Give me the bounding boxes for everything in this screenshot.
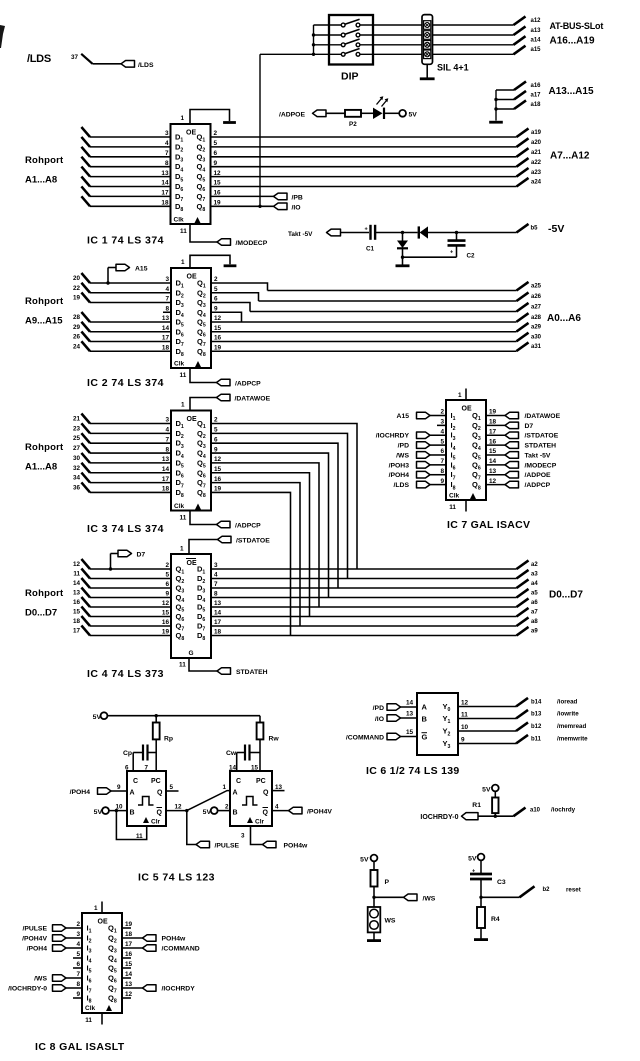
svg-text:5: 5: [214, 140, 218, 147]
svg-text:8: 8: [440, 468, 444, 475]
svg-text:+: +: [450, 250, 453, 256]
pin1 OE of IC2 to ground: [190, 255, 230, 268]
svg-text:A: A: [422, 703, 428, 712]
svg-text:15: 15: [73, 609, 81, 616]
svg-text:15: 15: [214, 180, 222, 187]
svg-text:3: 3: [165, 276, 169, 283]
svg-text:2: 2: [214, 276, 218, 283]
svg-text:7: 7: [76, 971, 80, 978]
wires IC2 Q outputs staircase to bus a25..a31: [211, 283, 268, 291]
svg-text:4: 4: [275, 804, 279, 811]
svg-text:OE: OE: [187, 416, 197, 423]
resistor R1: [494, 791, 496, 797]
junction /IO with DIP vertical: [258, 205, 261, 208]
svg-text:4: 4: [165, 427, 169, 434]
svg-text:/MODECP: /MODECP: [525, 462, 557, 469]
svg-text:/LDS: /LDS: [27, 53, 51, 65]
svg-text:WS: WS: [385, 918, 396, 925]
svg-text:C: C: [236, 778, 241, 785]
svg-text:A13...A15: A13...A15: [549, 86, 594, 97]
wire P2 to LED: [361, 112, 373, 114]
svg-text:17: 17: [489, 428, 497, 435]
svg-text:/iochrdy: /iochrdy: [551, 807, 576, 814]
svg-text:11: 11: [136, 833, 143, 840]
scan artifact top-left edge: [0, 25, 5, 48]
power 5V at P: [371, 855, 378, 862]
ground WS: [367, 939, 381, 942]
pin1 OE of IC3 to /DATAWOE: [190, 398, 217, 411]
wire Q2bar (pin4) to /POH4V: [272, 810, 289, 812]
svg-text:/PD: /PD: [373, 705, 384, 712]
svg-text:6: 6: [76, 961, 80, 968]
svg-text:b13: b13: [531, 712, 542, 718]
LED D3: [373, 108, 383, 119]
svg-text:17: 17: [161, 190, 169, 197]
svg-text:Q: Q: [263, 790, 269, 797]
wires A13..A15 grounded group: [495, 90, 497, 121]
svg-text:4: 4: [165, 286, 169, 293]
svg-text:16: 16: [125, 951, 133, 958]
svg-text:17: 17: [73, 628, 81, 635]
svg-text:a28: a28: [531, 315, 542, 321]
svg-text:a24: a24: [531, 180, 542, 186]
svg-text:/IOCHRDY: /IOCHRDY: [376, 433, 410, 440]
op IC4 74 LS 373: [171, 554, 211, 658]
svg-text:7: 7: [165, 150, 169, 157]
bus entries a25..a31: [517, 282, 529, 291]
power 5V at B2 (pin2): [211, 807, 218, 814]
bus entry a10 /iochrdy: [514, 808, 526, 817]
wires DIP left common vertical: [313, 25, 315, 54]
svg-text:3: 3: [241, 833, 245, 840]
svg-text:a22: a22: [531, 160, 542, 166]
bus entries a12..a15 AT-BUS-Slot: [514, 16, 526, 25]
svg-text:/POH4: /POH4: [389, 472, 410, 479]
svg-text:a26: a26: [531, 294, 542, 300]
svg-text:15: 15: [125, 961, 133, 968]
svg-text:/POH4: /POH4: [27, 946, 48, 953]
svg-text:30: 30: [73, 455, 81, 462]
wire /ADPOE to P2: [326, 112, 345, 114]
svg-text:a16: a16: [531, 83, 542, 89]
svg-text:2: 2: [440, 409, 444, 416]
svg-text:B: B: [233, 810, 238, 817]
capacitor C1: [369, 225, 371, 240]
svg-text:7: 7: [214, 581, 218, 588]
ground R4: [474, 938, 488, 941]
svg-text:a10: a10: [530, 808, 541, 814]
svg-text:5: 5: [214, 427, 218, 434]
wires IC6 Y outputs to bus b14..b11: [458, 706, 516, 708]
power 5V at B1 (pin10): [102, 807, 109, 814]
svg-text:4: 4: [214, 572, 218, 579]
svg-text:26: 26: [73, 334, 81, 341]
resistor R4: [477, 907, 485, 928]
svg-text:15: 15: [489, 448, 497, 455]
svg-text:Takt -5V: Takt -5V: [525, 452, 551, 459]
svg-text:9: 9: [461, 737, 465, 744]
svg-text:Clk: Clk: [85, 1005, 96, 1012]
svg-text:A7...A12: A7...A12: [550, 151, 590, 162]
svg-text:/IOCHRDY-0: /IOCHRDY-0: [8, 986, 47, 993]
svg-text:IC 3 74 LS 374: IC 3 74 LS 374: [87, 523, 164, 535]
svg-text:OE: OE: [187, 560, 197, 567]
svg-text:/ADPCP: /ADPCP: [525, 482, 551, 489]
svg-text:SIL 4+1: SIL 4+1: [437, 63, 469, 73]
svg-text:IC 5 74 LS 123: IC 5 74 LS 123: [138, 872, 215, 884]
svg-text:18: 18: [162, 486, 170, 493]
svg-text:28: 28: [73, 314, 81, 321]
svg-text:3: 3: [165, 130, 169, 137]
svg-text:18: 18: [161, 200, 169, 207]
svg-text:Rohport: Rohport: [25, 155, 64, 166]
wire Clr1 (pin11) tied to B1 net: [116, 811, 146, 840]
bus entry b5 -5V: [517, 224, 529, 233]
svg-text:Clk: Clk: [174, 503, 185, 510]
tag /COMMAND into IC6 G: [387, 733, 401, 740]
resistor network SIL 4+1: [422, 15, 433, 65]
svg-text:B: B: [422, 715, 428, 724]
wires Rohport A1..A8 into IC3: [81, 414, 90, 424]
svg-text:/WS: /WS: [423, 895, 436, 902]
svg-text:1: 1: [458, 392, 462, 399]
svg-text:5: 5: [440, 438, 444, 445]
svg-text:/PB: /PB: [292, 194, 303, 201]
svg-text:2: 2: [214, 130, 218, 137]
capacitor Cw: [237, 752, 245, 754]
svg-text:/LDS: /LDS: [394, 482, 410, 489]
wire Q1bar down to /PULSE: [187, 811, 196, 845]
svg-text:1: 1: [180, 546, 184, 553]
wire Q1bar (pin12) node: [166, 810, 187, 812]
svg-text:a15: a15: [531, 47, 542, 53]
svg-text:/LDS: /LDS: [138, 62, 154, 69]
svg-text:a18: a18: [531, 102, 542, 108]
svg-text:13: 13: [161, 170, 169, 177]
svg-text:Cp: Cp: [123, 750, 132, 757]
svg-text:a30: a30: [531, 334, 542, 340]
svg-text:12: 12: [214, 315, 222, 322]
svg-text:14: 14: [125, 971, 133, 978]
stub IC2 pin8 unconnected: [163, 311, 171, 313]
wires Rohport D0..D7 into IC4: [81, 559, 90, 569]
wire Clr2 (pin3) to POH4w: [251, 826, 263, 845]
svg-text:/WS: /WS: [34, 976, 47, 983]
svg-text:13: 13: [406, 711, 414, 718]
svg-text:6: 6: [214, 150, 218, 157]
wire LED to 5V: [384, 112, 399, 114]
svg-text:/ioread: /ioread: [557, 699, 578, 706]
svg-text:IC 1 74 LS 374: IC 1 74 LS 374: [87, 235, 164, 247]
svg-text:5V: 5V: [409, 112, 418, 119]
tags IC8 inputs: [53, 925, 67, 932]
svg-text:b14: b14: [531, 700, 542, 706]
tag /IO: [274, 203, 288, 210]
svg-text:17: 17: [162, 335, 170, 342]
capacitor Cp: [133, 752, 143, 754]
svg-text:37: 37: [71, 54, 79, 61]
pin11 Clk of IC1 to /MODECP: [190, 224, 217, 242]
svg-text:19: 19: [214, 200, 222, 207]
svg-text:/COMMAND: /COMMAND: [162, 946, 200, 953]
svg-text:11: 11: [85, 1017, 92, 1024]
svg-text:18: 18: [125, 931, 133, 938]
wire D2 to C2 node and -5V: [428, 232, 517, 234]
wires Rohport A1..A8 into IC1: [81, 127, 90, 137]
tag /MODECP: [217, 239, 231, 246]
svg-text:1: 1: [181, 259, 185, 266]
svg-text:4: 4: [165, 140, 169, 147]
svg-text:18: 18: [73, 618, 81, 625]
svg-text:8: 8: [165, 160, 169, 167]
pin1 OE of IC1 to ground: [190, 110, 230, 125]
svg-text:D0...D7: D0...D7: [25, 608, 57, 619]
tag /DATAWOE (IC3 OE): [217, 394, 231, 401]
resistor Rp: [155, 716, 157, 723]
svg-text:a2: a2: [531, 562, 538, 568]
svg-text:a13: a13: [531, 28, 542, 34]
svg-text:Clr: Clr: [151, 819, 161, 826]
op IC8 GAL ISASLT: [82, 913, 122, 1013]
svg-text:16: 16: [214, 476, 222, 483]
svg-text:13: 13: [162, 456, 170, 463]
svg-text:A15: A15: [135, 266, 148, 273]
svg-text:Rp: Rp: [164, 736, 173, 743]
diode D1 to ground: [402, 233, 404, 241]
stub Q1 output (pin5): [166, 790, 179, 792]
tag /ADPCP (IC3): [217, 521, 231, 528]
svg-text:P: P: [385, 879, 390, 886]
svg-text:A1...A8: A1...A8: [25, 462, 57, 473]
svg-text:9: 9: [117, 784, 121, 791]
svg-text:36: 36: [73, 484, 81, 491]
svg-text:Q: Q: [157, 790, 163, 797]
svg-text:11: 11: [179, 662, 186, 669]
svg-text:5: 5: [214, 286, 218, 293]
wire Q1bar to A2 diagonal: [187, 791, 230, 811]
svg-text:a14: a14: [531, 38, 542, 44]
junction dots DIP vertical: [312, 33, 315, 36]
svg-text:C: C: [133, 778, 138, 785]
wire /IO net long vertical: [259, 54, 261, 206]
svg-text:2: 2: [165, 562, 169, 569]
wire pin37 to /LDS tag: [93, 63, 122, 65]
wire R4 to ground: [480, 928, 482, 939]
svg-text:11: 11: [180, 228, 187, 235]
svg-text:4: 4: [76, 941, 80, 948]
svg-text:-5V: -5V: [548, 223, 564, 235]
svg-text:21: 21: [73, 416, 81, 423]
svg-text:17: 17: [214, 619, 222, 626]
svg-text:POH4w: POH4w: [284, 843, 309, 850]
svg-text:14: 14: [162, 466, 170, 473]
svg-text:IC 2 74 LS 374: IC 2 74 LS 374: [87, 377, 164, 389]
svg-text:29: 29: [73, 324, 81, 331]
svg-text:19: 19: [125, 921, 133, 928]
resistor P2: [345, 110, 361, 117]
op IC3 74 LS 374: [171, 411, 211, 511]
svg-text:12: 12: [175, 804, 183, 811]
svg-text:23: 23: [73, 425, 81, 432]
ground charge pump: [402, 257, 404, 265]
tags IC7 inputs: [417, 412, 431, 419]
svg-text:AT-BUS-SLot: AT-BUS-SLot: [550, 21, 604, 31]
svg-text:PC: PC: [151, 778, 161, 785]
svg-text:a17: a17: [531, 93, 542, 99]
svg-text:a6: a6: [531, 600, 538, 606]
svg-text:15: 15: [214, 466, 222, 473]
svg-text:15: 15: [214, 325, 222, 332]
svg-text:C2: C2: [467, 253, 476, 260]
svg-text:15: 15: [162, 610, 170, 617]
svg-text:2: 2: [76, 921, 80, 928]
svg-text:4: 4: [440, 428, 444, 435]
wires DIP to SIL to AT-bus a12..a15: [360, 24, 422, 26]
svg-text:R4: R4: [491, 916, 500, 923]
jumper WS: [368, 907, 381, 932]
svg-text:Rohport: Rohport: [25, 296, 64, 307]
svg-text:3: 3: [165, 417, 169, 424]
svg-text:R1: R1: [472, 802, 481, 809]
svg-text:POH4w: POH4w: [162, 936, 187, 943]
svg-text:/DATAWOE: /DATAWOE: [525, 413, 561, 420]
svg-text:2: 2: [214, 417, 218, 424]
svg-text:6: 6: [440, 448, 444, 455]
svg-text:reset: reset: [566, 887, 581, 894]
stub Q2 output (pin13): [272, 790, 285, 792]
ground SIL: [420, 77, 435, 80]
svg-text:6: 6: [214, 296, 218, 303]
svg-text:/IO: /IO: [375, 716, 384, 723]
ground IC1 OE: [223, 121, 236, 124]
svg-text:3: 3: [76, 931, 80, 938]
svg-text:OE: OE: [187, 274, 197, 281]
wire /IO from IC1 pin19: [211, 205, 274, 207]
svg-text:STDATEH: STDATEH: [525, 443, 557, 450]
pin11 Clk of IC3 to /ADPCP: [190, 511, 217, 525]
svg-text:3: 3: [214, 562, 218, 569]
wire node to b2: [481, 896, 520, 898]
svg-text:9: 9: [214, 160, 218, 167]
svg-text:5: 5: [165, 572, 169, 579]
svg-text:8: 8: [76, 981, 80, 988]
wire diode node down/right: [403, 256, 457, 258]
svg-text:D7: D7: [137, 552, 146, 559]
svg-text:/PULSE: /PULSE: [215, 843, 240, 850]
svg-text:/memread: /memread: [557, 723, 586, 730]
svg-text:13: 13: [489, 468, 497, 475]
svg-text:STDATEH: STDATEH: [236, 669, 268, 676]
svg-text:19: 19: [214, 486, 222, 493]
svg-text:/DATAWOE: /DATAWOE: [235, 396, 271, 403]
svg-text:Rw: Rw: [269, 736, 280, 743]
svg-text:A15: A15: [397, 413, 410, 420]
power 5V at C3: [478, 854, 485, 861]
svg-text:8: 8: [165, 305, 169, 312]
tag /PB: [274, 193, 288, 200]
svg-text:a3: a3: [531, 572, 538, 578]
wire R1 to iochrdy node: [494, 813, 496, 816]
svg-text:18: 18: [489, 419, 497, 426]
svg-text:8: 8: [165, 446, 169, 453]
wires IC3 Q1..Q8 staircase down to data bus a2..a9: [211, 424, 357, 570]
monostable block 2 (IC5b): [230, 771, 272, 826]
svg-text:+: +: [365, 227, 368, 233]
svg-text:16: 16: [489, 438, 497, 445]
svg-text:/PD: /PD: [398, 443, 409, 450]
wire Rp to pin7: [155, 739, 157, 771]
svg-text:/iowrite: /iowrite: [557, 711, 579, 718]
svg-text:13: 13: [73, 590, 81, 597]
svg-text:12: 12: [214, 170, 222, 177]
svg-text:C3: C3: [497, 879, 506, 886]
svg-text:7: 7: [165, 436, 169, 443]
tag /PD into IC6 A: [387, 704, 401, 711]
svg-text:2: 2: [225, 804, 229, 811]
pulse waveform symbol block1: [138, 797, 154, 806]
svg-text:a27: a27: [531, 305, 542, 311]
svg-text:6: 6: [214, 436, 218, 443]
svg-text:/ADPOE: /ADPOE: [279, 112, 306, 119]
svg-text:18: 18: [214, 629, 222, 636]
svg-text:Clk: Clk: [449, 493, 460, 500]
svg-text:/STDATOE: /STDATOE: [236, 538, 270, 545]
wire SIL bottom lead: [426, 64, 428, 78]
svg-text:/POH4: /POH4: [70, 789, 91, 796]
ground A13..A15: [489, 121, 503, 124]
svg-text:IC 7 GAL ISACV: IC 7 GAL ISACV: [447, 519, 530, 531]
svg-text:9: 9: [76, 991, 80, 998]
pulse waveform symbol block2: [242, 797, 258, 806]
svg-text:Clr: Clr: [255, 819, 265, 826]
svg-text:14: 14: [161, 180, 169, 187]
svg-text:A0...A6: A0...A6: [547, 313, 581, 324]
wires IC1 Q1..Q6 to bus a19..a24: [211, 136, 517, 138]
svg-text:G: G: [422, 733, 428, 742]
svg-text:15: 15: [406, 729, 414, 736]
svg-text:17: 17: [125, 941, 133, 948]
resistor P: [373, 861, 375, 870]
diode D2 series: [418, 226, 420, 238]
wire /PB from IC1 pin16: [211, 195, 274, 197]
svg-text:a25: a25: [531, 284, 542, 290]
svg-text:A1...A8: A1...A8: [25, 175, 57, 186]
wire Rw to pin15: [259, 739, 261, 771]
svg-text:/ADPCP: /ADPCP: [235, 381, 261, 388]
op IC1 74 LS 374: [171, 124, 211, 224]
svg-text:/ADPOE: /ADPOE: [525, 472, 552, 479]
svg-text:8: 8: [214, 591, 218, 598]
resistor Rw: [259, 716, 261, 723]
tag POH4w: [263, 841, 277, 848]
svg-text:IC 6 1/2 74 LS 139: IC 6 1/2 74 LS 139: [366, 765, 460, 777]
svg-text:A9...A15: A9...A15: [25, 316, 63, 327]
DIP switch S1: [329, 15, 373, 65]
svg-text:17: 17: [162, 476, 170, 483]
svg-text:D0...D7: D0...D7: [549, 590, 583, 601]
svg-text:1: 1: [94, 905, 98, 912]
svg-text:13: 13: [125, 981, 133, 988]
svg-text:G: G: [189, 650, 194, 657]
svg-text:16: 16: [214, 190, 222, 197]
capacitor C3: [480, 860, 482, 874]
op IC2 74 LS 374: [171, 268, 211, 368]
svg-text:P2: P2: [349, 121, 357, 128]
svg-text:14: 14: [73, 580, 81, 587]
svg-text:C1: C1: [366, 246, 375, 253]
wire WS to ground: [373, 932, 375, 939]
tag /STDATOE to IC4 OE: [218, 536, 232, 543]
